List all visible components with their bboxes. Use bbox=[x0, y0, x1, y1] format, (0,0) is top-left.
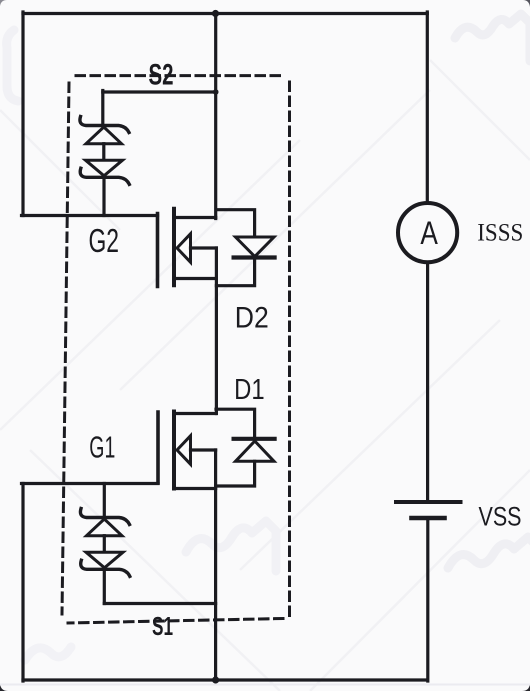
transistor Q2 gate bar bbox=[156, 214, 160, 287]
wire: G1 gate lead bbox=[22, 482, 159, 485]
transistor Q1 body arrow (points left) bbox=[177, 436, 191, 464]
wire: Q1 body line to bus bbox=[191, 448, 216, 451]
wire: D1 bottom lead bbox=[216, 461, 255, 486]
wire: top bus from top-left corner to top-right corner bbox=[23, 12, 427, 15]
zener ZD2b (cathode down) bar with hooked ends bbox=[80, 168, 129, 184]
zener ZD1a (cathode up) bar with hooked ends bbox=[80, 509, 129, 525]
wire: between zeners (lower pair) bbox=[103, 536, 106, 553]
wire: D1 top branch bbox=[216, 409, 255, 438]
diode D1 cathode bar bbox=[234, 437, 275, 441]
zener ZD2a triangle (apex up) bbox=[86, 127, 122, 144]
transistor Q1 gate bar bbox=[156, 412, 160, 483]
wire: right rail lower (battery to bottom line) bbox=[426, 518, 429, 681]
wire: Q1 drain horizontal bbox=[174, 412, 216, 415]
wire: between zeners (upper pair) bbox=[102, 144, 105, 161]
wire: right rail mid (ammeter to battery) bbox=[426, 262, 429, 502]
svg-text:S1: S1 bbox=[152, 611, 173, 641]
battery V1 long plate bbox=[396, 500, 461, 504]
node: junction dot at top center bus bbox=[212, 10, 219, 17]
svg-text:D1: D1 bbox=[234, 374, 265, 406]
battery V1 short plate bbox=[412, 516, 445, 521]
wire: D2 bottom lead bbox=[216, 258, 254, 286]
wire: Q1 source horizontal bbox=[174, 487, 216, 490]
diode D1 triangle (apex up) bbox=[236, 441, 275, 461]
wire: zener chain lower top lead (G1 lead down) bbox=[103, 484, 106, 518]
wire: left rail upper (top node down to G2 lead) bbox=[21, 12, 24, 216]
wire: zener chain lower bottom lead (to S1 line) bbox=[103, 570, 106, 604]
svg-text:A: A bbox=[420, 215, 438, 251]
boundary: dashed package box bbox=[62, 76, 290, 623]
svg-text:ISSS: ISSS bbox=[477, 220, 523, 247]
wire: bottom line bbox=[23, 678, 427, 681]
wire: G2 gate lead bbox=[22, 214, 158, 217]
svg-text:VSS: VSS bbox=[479, 501, 522, 532]
wire: Q2 body line to bus bbox=[191, 246, 217, 249]
wire: center bus lower segment (Q1 body/source down to bottom) bbox=[214, 450, 217, 680]
diode D2 triangle (apex down) bbox=[236, 237, 275, 257]
wire: Q2 source horizontal bbox=[174, 277, 216, 280]
zener ZD2b triangle (apex down) bbox=[86, 160, 123, 176]
wire: center bus mid segment (Q2 source to Q1 drain) bbox=[215, 248, 218, 414]
svg-text:G2: G2 bbox=[89, 222, 120, 259]
wire: zener chain top lead (S2 line down to ZD top) bbox=[101, 91, 104, 126]
zener ZD1b (cathode down) bar with hooked ends bbox=[81, 560, 130, 576]
wire: Q2 drain horizontal bbox=[174, 216, 216, 219]
transistor Q2 body arrow (points left) bbox=[177, 234, 191, 262]
zener ZD1a triangle (apex up) bbox=[87, 519, 123, 536]
wire: center bus upper segment (top to M2 drain) bbox=[214, 14, 217, 219]
transistor Q1 channel bar bbox=[172, 412, 176, 489]
transistor Q2 channel bar bbox=[172, 209, 176, 285]
zener ZD1b triangle (apex down) bbox=[86, 552, 123, 568]
wire: left rail lower (G1 lead down to bottom line) bbox=[21, 484, 24, 682]
ammeter U1 circle bbox=[398, 203, 457, 262]
wire: S1 node line bbox=[104, 602, 215, 605]
svg-text:S2: S2 bbox=[149, 58, 174, 91]
wire: S2 node line bbox=[103, 90, 217, 93]
wire: zener chain bottom lead (to G2 lead) bbox=[102, 178, 105, 216]
node: junction dot bottom bus bbox=[212, 676, 219, 683]
diode D2 cathode bar bbox=[234, 255, 275, 259]
node: junction dot S2 line and bus bbox=[213, 89, 219, 95]
wire: D2 top branch bbox=[216, 210, 254, 237]
zener ZD2a (cathode up) bar with hooked ends bbox=[80, 117, 129, 133]
svg-text:D2: D2 bbox=[235, 302, 269, 335]
svg-text:G1: G1 bbox=[89, 431, 115, 465]
wire: right rail upper (top to ammeter) bbox=[426, 12, 429, 203]
